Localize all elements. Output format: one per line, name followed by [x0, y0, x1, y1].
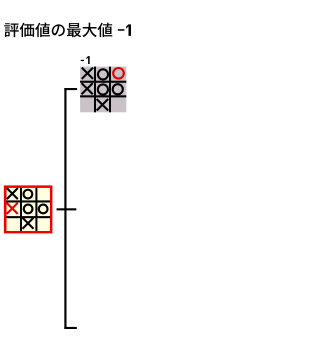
child board X row2 col1: [82, 83, 93, 94]
child board O row1 col2: [98, 69, 108, 79]
child board grid vertical line 1: [94, 67, 96, 113]
child board red O row1 col3: [113, 68, 124, 79]
parent board grid horizontal line 1: [7, 200, 51, 202]
parent board O row2 col2: [24, 205, 33, 214]
tree bracket vertical line: [64, 88, 66, 329]
child board grid horizontal line 1: [80, 81, 126, 83]
parent board background: [7, 188, 51, 231]
child board O row2 col3: [113, 84, 123, 94]
tree bracket middle tick: [57, 208, 77, 210]
tree bracket bottom tick: [64, 327, 76, 329]
title minus sign: [118, 29, 125, 31]
parent board O row1 col2: [24, 190, 33, 199]
tree bracket top tick: [64, 88, 77, 90]
node value label -1: [81, 56, 90, 64]
parent board red X row2 col1: [7, 203, 18, 214]
child board grid vertical line 2: [109, 67, 111, 113]
parent board X row1 col1: [7, 188, 18, 199]
title text 評価値の最大値: [4, 23, 112, 37]
child board O row2 col2: [98, 84, 108, 94]
parent board grid horizontal line 2: [7, 216, 51, 218]
parent board grid vertical line 1: [20, 188, 22, 231]
parent board red border: [4, 185, 53, 233]
child board grid horizontal line 2: [80, 95, 126, 97]
child board X row3 col2: [97, 99, 109, 111]
parent board O row2 col3: [39, 205, 48, 214]
child board X row1 col1: [82, 68, 93, 79]
child board background: [80, 67, 126, 113]
parent board grid vertical line 2: [35, 188, 37, 231]
title digit 1: [126, 24, 131, 36]
parent board X row3 col2: [23, 218, 34, 229]
